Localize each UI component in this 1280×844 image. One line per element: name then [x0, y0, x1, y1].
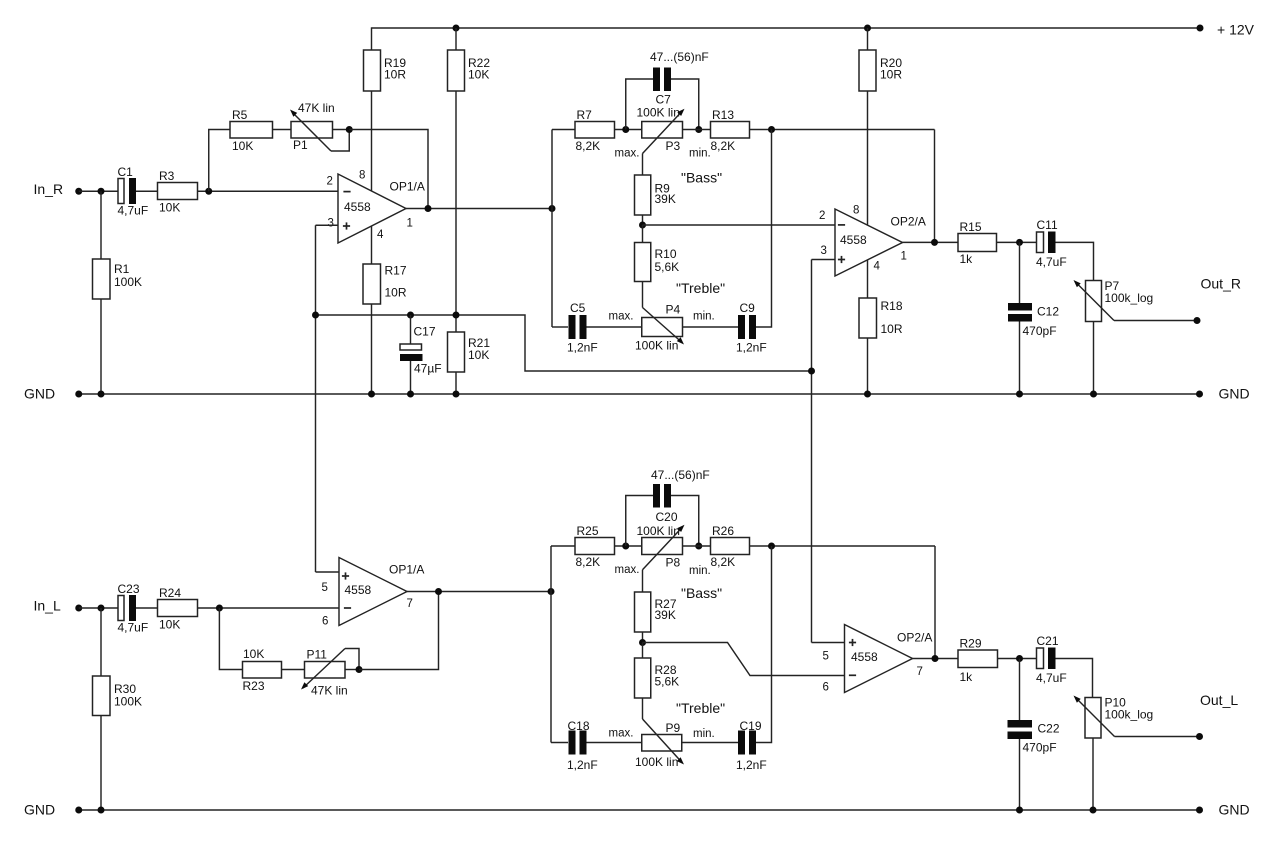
resistor R1: [93, 259, 111, 299]
wire R23 to P11: [282, 669, 305, 671]
svg-text:4,7uF: 4,7uF: [1036, 671, 1067, 685]
node R1 GND: [98, 391, 105, 398]
pot P1 wiper arrow: [292, 112, 331, 151]
capacitor C11: [1037, 232, 1044, 253]
capacitor C17: [400, 344, 422, 350]
node bass feedback rail: [768, 126, 775, 133]
potentiometer P3 Bass: [642, 122, 683, 139]
svg-text:P11: P11: [307, 648, 328, 662]
wire R7 to P3: [615, 129, 642, 131]
svg-text:OP2/A: OP2/A: [897, 631, 932, 645]
svg-text:100K: 100K: [114, 695, 142, 709]
svg-text:OP1/A: OP1/A: [390, 180, 425, 194]
op-amp OP2/B minus: [849, 674, 856, 676]
wire C7 left leg: [626, 79, 653, 130]
svg-text:6: 6: [322, 616, 328, 628]
wire P8 to R26: [683, 545, 711, 547]
op-amp OP1/A minus: [343, 191, 350, 193]
node P10 GND: [1090, 807, 1097, 814]
svg-text:10K: 10K: [468, 348, 489, 362]
svg-text:100K: 100K: [114, 275, 142, 289]
resistor R9: [635, 175, 651, 215]
svg-text:R23: R23: [243, 679, 265, 693]
wire pin 4 to R17: [371, 226, 373, 264]
wire R17 bottom to GND: [371, 304, 373, 394]
resistor R22: [448, 50, 465, 91]
wire OP2/A pin 3: [812, 259, 836, 261]
svg-text:5: 5: [823, 651, 829, 663]
pot P3 wiper arrow: [643, 111, 683, 154]
svg-text:C20: C20: [656, 510, 678, 524]
node R30 tap: [98, 605, 105, 612]
svg-text:Out_L: Out_L: [1200, 692, 1238, 708]
svg-text:R29: R29: [960, 637, 982, 651]
wire junction to OP2/B pin6 jog: [643, 643, 845, 676]
op-amp OP2/A plus: [838, 256, 845, 263]
wire P1 right terminal: [333, 129, 350, 131]
svg-text:R26: R26: [712, 524, 734, 538]
svg-text:6: 6: [823, 682, 829, 694]
svg-text:C11: C11: [1037, 218, 1058, 232]
terminal In_L: [75, 605, 82, 612]
pot P11 wiper arrow: [303, 649, 345, 689]
resistor R28: [635, 658, 651, 698]
node C17 GND: [407, 391, 414, 398]
svg-text:8,2K: 8,2K: [576, 555, 601, 569]
wire R9 to node: [642, 215, 644, 225]
svg-text:R25: R25: [577, 524, 599, 538]
node R27 R28 junction: [639, 639, 646, 646]
wire C17 top: [410, 315, 412, 344]
wire C11 to P7: [1056, 242, 1094, 280]
svg-text:10K: 10K: [232, 139, 253, 153]
svg-text:100k_log: 100k_log: [1105, 291, 1154, 305]
node R22 on +12V rail: [453, 25, 460, 32]
wire In_R to C1: [79, 190, 118, 192]
wire tone input rail: [551, 130, 553, 328]
wire In_L to C23: [79, 607, 118, 609]
wire pin3 rail down: [811, 260, 813, 643]
op-amp OP2/B plus: [849, 639, 856, 646]
op-amp OP2/A minus: [838, 224, 845, 226]
capacitor C21: [1037, 648, 1044, 669]
wire C21 to P10: [1056, 659, 1093, 698]
wire R30 top: [100, 608, 102, 676]
resistor R30: [93, 676, 111, 716]
wire C5 to P4: [587, 326, 642, 328]
node R1 tap: [98, 188, 105, 195]
wire down to R23 row: [219, 608, 242, 670]
wire rail to R7: [552, 129, 575, 131]
svg-text:4: 4: [377, 229, 384, 241]
svg-text:C9: C9: [740, 301, 756, 315]
svg-text:4: 4: [874, 261, 881, 273]
wire P10 bottom to GND: [1092, 738, 1094, 810]
svg-text:GND: GND: [24, 802, 55, 818]
pot P7 wiper arrow: [1076, 282, 1115, 321]
wire R20 top: [867, 28, 869, 50]
svg-text:4558: 4558: [840, 233, 867, 247]
svg-text:2: 2: [819, 210, 825, 222]
wire OP2/A output: [903, 241, 959, 243]
wire R26 to feedback corner: [750, 545, 936, 547]
capacitor C18: [569, 731, 576, 755]
wire GND rail top: [79, 393, 1200, 395]
svg-text:+ 12V: + 12V: [1217, 22, 1255, 38]
wire P9 to C19: [682, 742, 738, 744]
svg-text:470pF: 470pF: [1023, 741, 1057, 755]
terminal GND bottom left: [75, 807, 82, 814]
terminal Out_R: [1194, 317, 1201, 324]
wire R27 to node: [642, 632, 644, 643]
wire mid rail to OP2/B pin 5: [812, 642, 845, 644]
resistor R17: [363, 264, 381, 304]
node P1 junction: [346, 126, 353, 133]
resistor R3: [158, 183, 198, 200]
node R21 GND: [453, 391, 460, 398]
svg-text:max.: max.: [609, 311, 634, 323]
svg-text:"Treble": "Treble": [676, 280, 725, 296]
wire OP1/B pin 5: [316, 571, 340, 573]
node C12 tap: [1016, 239, 1023, 246]
wire C7 right leg: [671, 79, 699, 130]
node C12 GND: [1016, 391, 1023, 398]
node feedback tap after R3: [205, 188, 212, 195]
wire C18 to P9: [587, 742, 642, 744]
svg-text:C12: C12: [1037, 305, 1059, 319]
wire +12V supply rail: [372, 27, 1201, 29]
svg-text:OP1/A: OP1/A: [389, 563, 424, 577]
svg-text:In_L: In_L: [34, 598, 61, 614]
svg-text:10R: 10R: [385, 286, 407, 300]
svg-text:47K lin: 47K lin: [298, 101, 335, 115]
potentiometer P8 Bass: [642, 538, 683, 555]
wire rail to C18: [551, 742, 568, 744]
node R9 R10 junction: [639, 222, 646, 229]
node R18 GND: [864, 391, 871, 398]
resistor R7: [575, 122, 615, 139]
potentiometer P11: [305, 662, 346, 679]
svg-text:max.: max.: [615, 148, 640, 160]
wire P10 wiper to Out_L: [1115, 736, 1200, 738]
pot P8 wiper arrow: [643, 527, 683, 570]
svg-text:"Treble": "Treble": [676, 700, 725, 716]
svg-text:P9: P9: [666, 721, 681, 735]
svg-text:R7: R7: [577, 108, 593, 122]
svg-text:5,6K: 5,6K: [655, 260, 680, 274]
svg-text:1k: 1k: [960, 670, 974, 684]
svg-text:max.: max.: [615, 564, 640, 576]
capacitor C23: [118, 596, 124, 621]
node C17 on mid rail: [407, 312, 414, 319]
node C20 left: [622, 543, 629, 550]
wire P11 wiper loop: [345, 649, 359, 670]
node C22 GND: [1016, 807, 1023, 814]
wire OP2/A pin 4 to R18: [867, 260, 869, 298]
svg-text:4558: 4558: [345, 583, 372, 597]
node OP1/B output to tone network: [548, 588, 555, 595]
wire OP1/A output: [406, 208, 552, 210]
wire OP1/B output: [407, 591, 551, 593]
terminal GND bottom right: [1196, 807, 1203, 814]
svg-text:R15: R15: [960, 220, 982, 234]
wire OP2/A pin 8 from R20: [867, 91, 869, 225]
svg-text:100k_log: 100k_log: [1105, 708, 1154, 722]
pot P10 wiper arrow: [1076, 698, 1115, 737]
svg-text:470pF: 470pF: [1023, 324, 1057, 338]
capacitor C7: [653, 68, 660, 92]
capacitor C12: [1008, 303, 1032, 311]
wire C22 top: [1019, 659, 1021, 721]
svg-text:4558: 4558: [344, 200, 371, 214]
svg-text:P1: P1: [293, 138, 308, 152]
svg-text:2: 2: [327, 176, 333, 188]
svg-text:4558: 4558: [851, 650, 878, 664]
wire +12V rail drop to R19: [371, 27, 373, 50]
potentiometer P4 Treble: [642, 318, 683, 337]
svg-text:10K: 10K: [468, 68, 489, 82]
wire C22 bottom to GND: [1019, 739, 1021, 810]
svg-text:P3: P3: [666, 139, 681, 153]
svg-text:GND: GND: [1219, 386, 1250, 402]
svg-text:max.: max.: [609, 728, 634, 740]
svg-text:C17: C17: [414, 325, 436, 339]
wire C20 right leg: [671, 496, 699, 547]
node OP2/A output feedback: [931, 239, 938, 246]
wire R13 to feedback corner: [750, 129, 935, 131]
svg-text:GND: GND: [1219, 802, 1250, 818]
wire feedback down to OP2/B output: [934, 546, 936, 659]
svg-text:47...(56)nF: 47...(56)nF: [651, 468, 710, 482]
svg-text:10R: 10R: [881, 322, 903, 336]
svg-text:Out_R: Out_R: [1201, 276, 1241, 292]
node R20 on +12V rail: [864, 25, 871, 32]
svg-text:min.: min.: [689, 565, 711, 577]
svg-text:10K: 10K: [243, 647, 264, 661]
svg-text:C18: C18: [568, 719, 590, 733]
svg-text:C7: C7: [656, 93, 672, 107]
resistor R23: [243, 662, 282, 679]
svg-text:C23: C23: [118, 582, 140, 596]
svg-text:C22: C22: [1038, 722, 1060, 736]
svg-text:3: 3: [328, 218, 334, 230]
node C22 tap: [1016, 655, 1023, 662]
resistor R19: [364, 50, 381, 91]
wire P8 wiper to R27: [642, 570, 644, 592]
terminal GND top left: [75, 391, 82, 398]
resistor R10: [635, 243, 651, 282]
wire P3 wiper to R9: [642, 154, 644, 176]
wire C23 to R24: [136, 607, 158, 609]
terminal GND top right: [1196, 391, 1203, 398]
wire R18 bottom to GND: [867, 338, 869, 394]
capacitor C9: [738, 315, 745, 339]
wire R28 to P9 wiper: [642, 698, 644, 719]
resistor R27: [635, 592, 651, 632]
svg-text:7: 7: [917, 666, 923, 678]
wire P11 right terminal: [345, 669, 359, 671]
wire R10 to P4 wiper: [642, 282, 644, 308]
pot P9 wiper arrow: [643, 719, 683, 763]
svg-text:100K lin: 100K lin: [635, 339, 678, 353]
svg-text:8: 8: [359, 170, 365, 182]
potentiometer P7 volume: [1086, 281, 1102, 322]
wire R15 to C11: [997, 241, 1037, 243]
wire R1 top: [100, 191, 102, 259]
wire GND rail bottom: [79, 809, 1200, 811]
svg-text:R13: R13: [712, 108, 734, 122]
svg-text:39K: 39K: [655, 192, 676, 206]
node OP2/B output feedback: [932, 655, 939, 662]
wire C12 bottom to GND: [1019, 322, 1021, 395]
resistor R5: [230, 122, 273, 139]
svg-text:R18: R18: [881, 299, 903, 313]
terminal In_R: [75, 188, 82, 195]
svg-text:8: 8: [853, 205, 859, 217]
node mid rail OP2 pin3: [808, 368, 815, 375]
op-amp OP1/B minus: [344, 607, 351, 609]
capacitor C5: [569, 315, 576, 339]
node P11 junction: [356, 666, 363, 673]
wire R3 to OP1/A pin2: [198, 190, 339, 192]
svg-text:In_R: In_R: [34, 181, 64, 197]
capacitor C20: [653, 484, 660, 508]
wire rail to C5: [552, 326, 568, 328]
wire R30 bottom to GND: [100, 716, 102, 811]
svg-text:5,6K: 5,6K: [655, 675, 680, 689]
svg-text:min.: min.: [693, 311, 715, 323]
wire pin 8 from R19: [371, 91, 373, 191]
resistor R26: [711, 538, 750, 555]
svg-text:1,2nF: 1,2nF: [736, 341, 767, 355]
wire R5 to P1: [273, 129, 292, 131]
svg-text:C19: C19: [740, 719, 762, 733]
svg-text:P4: P4: [666, 303, 681, 317]
svg-text:47µF: 47µF: [414, 362, 442, 376]
svg-text:10K: 10K: [159, 201, 180, 215]
op-amp OP2/B: [845, 625, 913, 693]
wire R25 to P8: [615, 545, 642, 547]
potentiometer P9 Treble: [642, 735, 682, 752]
node R17 GND: [368, 391, 375, 398]
node R30 GND: [98, 807, 105, 814]
svg-text:R5: R5: [232, 108, 248, 122]
wire rail to R25: [551, 545, 575, 547]
svg-text:5: 5: [322, 582, 328, 594]
resistor R21: [448, 332, 465, 372]
terminal Out_L: [1196, 733, 1203, 740]
node feedback tap after R24: [216, 605, 223, 612]
svg-text:4,7uF: 4,7uF: [1036, 255, 1067, 269]
wire P7 bottom to GND: [1093, 322, 1095, 395]
svg-text:8,2K: 8,2K: [711, 555, 736, 569]
node OP1/B feedback on output: [435, 588, 442, 595]
potentiometer P1: [291, 122, 333, 139]
op-amp OP1/B plus: [342, 572, 349, 579]
svg-text:OP2/A: OP2/A: [891, 215, 926, 229]
svg-text:7: 7: [407, 598, 413, 610]
wire virtual-ground mid rail: [316, 315, 812, 371]
svg-text:1: 1: [407, 217, 413, 229]
wire C9 to feedback rail: [756, 130, 772, 328]
op-amp OP1/A plus: [343, 222, 350, 229]
wire R1 bottom to GND: [100, 299, 102, 394]
wire P4 to C9: [683, 326, 739, 328]
svg-text:R10: R10: [655, 247, 677, 261]
wire P1 wiper loop: [331, 130, 349, 152]
wire up to R5 row: [209, 130, 230, 192]
svg-text:8,2K: 8,2K: [711, 139, 736, 153]
wire C17 bottom to GND: [410, 361, 412, 394]
node P7 GND: [1090, 391, 1097, 398]
svg-text:4,7uF: 4,7uF: [118, 204, 149, 218]
node pin3 rail on mid rail: [312, 312, 319, 319]
potentiometer P10 volume: [1085, 698, 1101, 739]
svg-text:min.: min.: [689, 148, 711, 160]
wire node to R10: [642, 225, 644, 243]
op-amp OP1/B: [339, 558, 407, 626]
svg-text:"Bass": "Bass": [681, 170, 722, 186]
wire P11 junction to output: [359, 592, 439, 670]
capacitor C1: [118, 179, 124, 204]
wire P7 wiper to Out_R: [1114, 320, 1197, 322]
svg-text:C5: C5: [570, 301, 586, 315]
op-amp OP1/A: [338, 174, 406, 243]
resistor R18: [859, 298, 877, 338]
resistor R13: [711, 122, 750, 139]
svg-text:10R: 10R: [880, 68, 902, 82]
wire P3 to R13: [683, 129, 711, 131]
wire C12 top: [1019, 242, 1021, 303]
svg-text:P8: P8: [666, 556, 681, 570]
svg-text:GND: GND: [24, 386, 55, 402]
terminal +12V: [1197, 25, 1204, 32]
wire R21 bottom to GND: [455, 372, 457, 394]
op-amp OP2/A: [835, 209, 903, 276]
wire R22 top: [455, 28, 457, 50]
svg-text:C1: C1: [118, 165, 134, 179]
capacitor C19: [738, 731, 745, 755]
node output to tone network: [549, 205, 556, 212]
wire C20 left leg: [626, 496, 653, 547]
svg-text:R17: R17: [385, 264, 407, 278]
svg-text:3: 3: [821, 245, 827, 257]
node bass feedback rail L: [768, 543, 775, 550]
wire node to R28: [642, 643, 644, 659]
node R21 on mid rail: [453, 312, 460, 319]
svg-text:"Bass": "Bass": [681, 585, 722, 601]
svg-text:1,2nF: 1,2nF: [567, 758, 598, 772]
wire R24 to OP1/B pin6: [198, 607, 340, 609]
wire junction to OP2/A pin2: [643, 224, 836, 226]
svg-text:1,2nF: 1,2nF: [736, 758, 767, 772]
wire P1 junction to feedback corner: [349, 130, 428, 209]
svg-text:C21: C21: [1037, 634, 1059, 648]
svg-text:1k: 1k: [960, 252, 974, 266]
node C7 left: [622, 126, 629, 133]
resistor R29: [958, 650, 998, 668]
svg-text:R24: R24: [159, 586, 181, 600]
svg-text:47K lin: 47K lin: [311, 684, 348, 698]
wire pin 3 non-inverting: [316, 224, 339, 226]
resistor R24: [158, 600, 198, 617]
svg-text:10K: 10K: [159, 618, 180, 632]
wire C1 to R3: [136, 190, 158, 192]
wire feedback down to OP2/A output: [934, 130, 936, 243]
node feedback on output: [425, 205, 432, 212]
svg-text:1,2nF: 1,2nF: [567, 341, 598, 355]
svg-text:8,2K: 8,2K: [576, 139, 601, 153]
